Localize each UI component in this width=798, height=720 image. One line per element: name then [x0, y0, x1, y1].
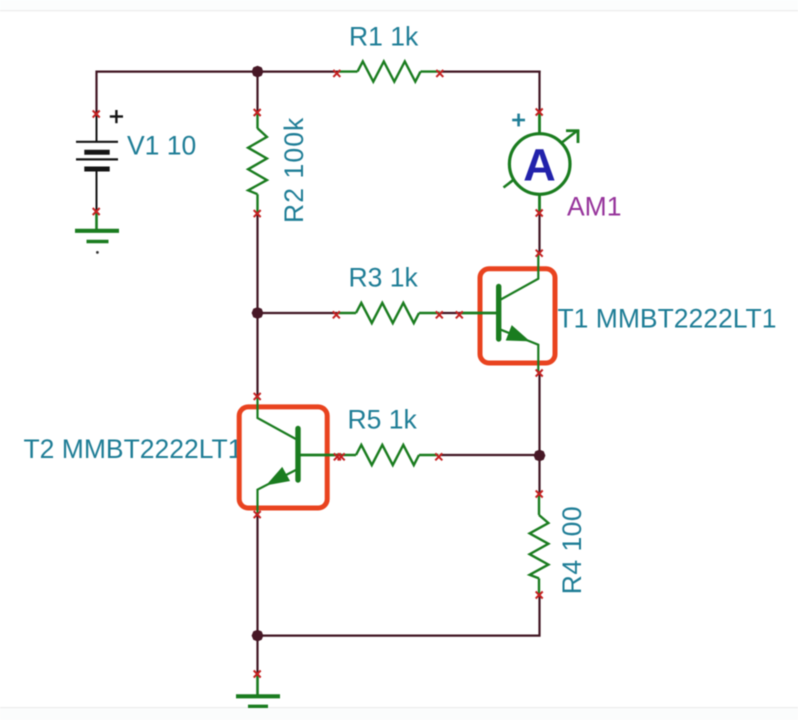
transistor T1: [461, 253, 539, 373]
ground (battery): [75, 213, 119, 242]
svg-text:AM1: AM1: [567, 192, 622, 222]
pin x ammeter bottom: [536, 210, 543, 217]
pin x R3 left: [333, 311, 340, 318]
svg-text:R4 100: R4 100: [557, 506, 587, 594]
svg-text:R5 1k: R5 1k: [348, 404, 418, 434]
ground (bottom): [236, 674, 280, 706]
pin x R3 right: [436, 311, 443, 318]
window bottom edge line: [0, 707, 798, 720]
pin x R2 top: [254, 109, 261, 116]
ammeter AM1: [504, 112, 580, 213]
resistor R4: [530, 495, 549, 596]
svg-text:T1 MMBT2222LT1: T1 MMBT2222LT1: [558, 303, 777, 333]
pin x T2 base: [334, 453, 341, 460]
svg-text:R1 1k: R1 1k: [349, 22, 419, 52]
wire R2 bottom through mid node to T2 collector: [256, 214, 258, 396]
pin x T1 emitter: [536, 370, 543, 377]
wire R5 right to node: [440, 454, 540, 456]
pin x R2 bottom: [254, 210, 261, 217]
pin x R1 right: [436, 70, 443, 77]
wire ammeter to T1 collector: [538, 213, 540, 253]
transistor T2: [258, 396, 339, 514]
junction node mid (R2/R3): [252, 307, 264, 319]
svg-text:R3 1k: R3 1k: [349, 262, 419, 292]
ammeter plus sign: [512, 114, 525, 127]
pin cross marks: [93, 70, 543, 678]
wire node down to R4: [538, 456, 540, 495]
svg-text:A: A: [523, 140, 556, 191]
wire mid node to R3: [258, 312, 338, 314]
pin x R1 left: [333, 70, 340, 77]
wire right vertical to ammeter: [538, 71, 540, 113]
wire left vertical to battery: [95, 71, 97, 114]
pin x T1 base: [456, 311, 463, 318]
wire bottom node to ground: [256, 636, 258, 674]
wire T2 emitter down to bottom node: [256, 515, 258, 636]
resistor R3: [338, 303, 440, 323]
resistor R1: [338, 62, 440, 82]
wire top horizontal right segment: [441, 70, 541, 72]
junction node top (R1/R2/V1): [252, 66, 264, 78]
wire T1 emitter down to node: [538, 373, 540, 456]
battery V1: [76, 113, 118, 212]
resistor R2: [248, 113, 267, 214]
pin x ammeter top: [536, 109, 543, 116]
pin x T1 collector: [536, 250, 543, 257]
pin x R5 left: [338, 453, 345, 460]
wire top horizontal left segment: [97, 70, 339, 72]
pin x battery bottom: [93, 208, 100, 215]
pin x R4 bottom: [536, 592, 543, 599]
wire top node down to R2: [256, 71, 258, 113]
junction node right (R5/R4/T1): [534, 450, 546, 462]
wire R4 bottom to ground corner: [258, 595, 540, 636]
pin x T2 collector: [254, 393, 261, 400]
resistor R5: [339, 445, 439, 465]
pin x ground bottom: [254, 671, 261, 678]
window top edge line: [0, 0, 798, 11]
svg-text:V1 10: V1 10: [127, 131, 196, 161]
transistor T2 selection box: [239, 407, 327, 508]
wire R3 right to T1 base pin: [440, 312, 461, 314]
battery plus sign: [110, 110, 123, 123]
pin x T2 emitter: [254, 511, 261, 518]
svg-text:T2 MMBT2222LT1: T2 MMBT2222LT1: [24, 434, 243, 464]
junction node bottom (T2/R4/ground): [252, 630, 264, 642]
pin x R4 top: [536, 491, 543, 498]
svg-text:R2 100k: R2 100k: [279, 117, 309, 223]
ground dot artifact: [96, 251, 99, 254]
transistor T1 selection box: [480, 269, 555, 363]
pin x R5 right: [435, 453, 442, 460]
pin x battery top: [93, 111, 100, 118]
